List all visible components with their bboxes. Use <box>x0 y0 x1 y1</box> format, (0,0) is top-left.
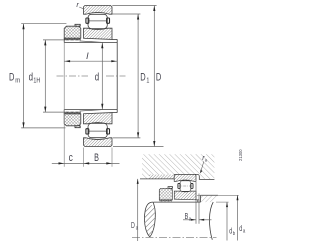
roller bottom <box>88 123 107 137</box>
sleeve right outer line top <box>112 38 117 40</box>
dimension d_b <box>226 202 228 240</box>
shaft shoulder surface right <box>201 194 219 196</box>
sleeve thread bottom (zigzag) <box>64 112 80 114</box>
housing section <box>142 154 214 179</box>
dimension B_a <box>183 182 212 224</box>
sleeve thread (mounting) <box>159 200 172 202</box>
svg-text:b: b <box>233 231 235 237</box>
extension line left (nut face / c,l) <box>63 42 65 166</box>
dimension c <box>52 162 64 164</box>
svg-text:21300: 21300 <box>238 149 243 161</box>
outer ring bottom section <box>84 138 113 147</box>
dimension d_1H <box>43 40 64 112</box>
svg-text:B: B <box>185 212 189 221</box>
housing bore corner with fillet and right wall <box>174 174 214 179</box>
adapter sleeve bore bottom line <box>64 109 117 111</box>
svg-text:c: c <box>69 152 74 164</box>
dimension D_a <box>137 179 139 241</box>
roller bottom midline <box>88 130 107 132</box>
roller top midline <box>88 20 107 22</box>
cage top-left <box>86 18 89 23</box>
inner ring section (mounting) <box>174 191 196 200</box>
locknut section (mounting) <box>159 188 172 200</box>
dimension d_a <box>237 195 239 240</box>
svg-text:D: D <box>140 71 145 83</box>
cage right (mounting) <box>191 184 193 189</box>
extension line B left <box>83 148 85 167</box>
shaft surface <box>154 201 201 203</box>
extension line d_a <box>197 194 239 196</box>
centerline mounting axis <box>132 237 217 239</box>
dimension B <box>64 162 119 164</box>
svg-text:a: a <box>205 158 207 163</box>
svg-text:a: a <box>243 229 245 235</box>
inner ring top section <box>84 28 113 39</box>
svg-text:m: m <box>15 76 20 85</box>
sleeve thread top (zigzag) <box>64 38 80 40</box>
sleeve slit wedge top <box>80 41 102 42</box>
svg-text:l: l <box>86 51 89 62</box>
shaft break curve right <box>209 202 213 240</box>
sleeve left end face <box>63 38 65 42</box>
dimension D1 <box>112 14 140 138</box>
cage bottom-left <box>86 129 89 134</box>
svg-text:D: D <box>156 71 161 83</box>
cage bottom-right <box>107 129 110 134</box>
sleeve step line (mounting) <box>196 200 198 202</box>
dimension l <box>64 60 117 62</box>
outer ring top section <box>84 6 113 15</box>
inner ring bottom section <box>84 113 113 124</box>
extension line B right <box>111 148 113 167</box>
shaft shoulder face right <box>200 195 202 202</box>
housing shoulder dense band left <box>149 175 174 179</box>
leader for r <box>79 7 83 9</box>
locknut top section <box>64 26 81 38</box>
housing shoulder surface left <box>140 178 174 180</box>
svg-text:a: a <box>136 226 138 232</box>
sleeve right outer line bottom <box>112 112 117 114</box>
roller centerline (mounting) <box>177 185 193 187</box>
outer ring section (mounting) <box>174 174 196 181</box>
adapter sleeve bore top line <box>64 41 117 43</box>
extension line d_b <box>216 201 229 203</box>
dimension D <box>112 6 163 147</box>
locknut bottom section <box>64 114 81 126</box>
lock washer tab top <box>75 24 80 26</box>
teardrop hatching <box>145 205 156 235</box>
lock washer tab bottom <box>75 126 80 128</box>
sleeve slit wedge bottom <box>80 110 102 111</box>
roller top <box>88 14 107 28</box>
svg-text:d: d <box>239 224 242 233</box>
svg-text:D: D <box>131 221 135 230</box>
lock washer tab (mounting) <box>168 187 173 189</box>
svg-text:D: D <box>9 71 14 83</box>
svg-text:B: B <box>94 152 99 164</box>
svg-text:d: d <box>229 226 232 235</box>
cage top-right <box>107 18 110 23</box>
svg-text:d: d <box>95 71 99 83</box>
dimension d <box>101 42 103 109</box>
svg-text:r: r <box>76 0 79 9</box>
shaft shoulder right (hatched step) <box>201 195 219 202</box>
roller (mounting) <box>180 181 191 192</box>
svg-text:1H: 1H <box>33 76 40 85</box>
centerline main axis <box>57 75 126 77</box>
sleeve right portion (mounting) <box>196 200 199 202</box>
svg-text:d: d <box>29 71 33 83</box>
dimension D_m <box>21 24 66 128</box>
svg-text:a: a <box>189 217 191 223</box>
shaft break teardrop left <box>145 202 156 237</box>
cage left (mounting) <box>178 184 180 189</box>
sleeve right end face <box>116 39 118 112</box>
svg-text:1: 1 <box>146 76 149 85</box>
